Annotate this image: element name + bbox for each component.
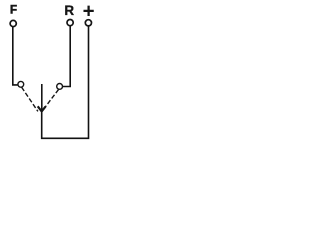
left contact circle (18, 81, 24, 87)
terminal F (10, 20, 16, 26)
wire R to right contact (62, 26, 70, 87)
dashed blade right (43, 89, 59, 110)
arrowhead (38, 106, 46, 111)
svg-text:R: R (64, 3, 74, 18)
wire F to left contact (13, 27, 18, 85)
dashed blade left (22, 87, 38, 111)
terminal R (67, 20, 73, 26)
actuator line (41, 84, 43, 111)
wire common to + (42, 26, 89, 138)
terminal + (85, 20, 91, 26)
right contact circle (57, 84, 63, 90)
svg-text:F: F (10, 4, 17, 16)
junction dot (40, 109, 43, 112)
